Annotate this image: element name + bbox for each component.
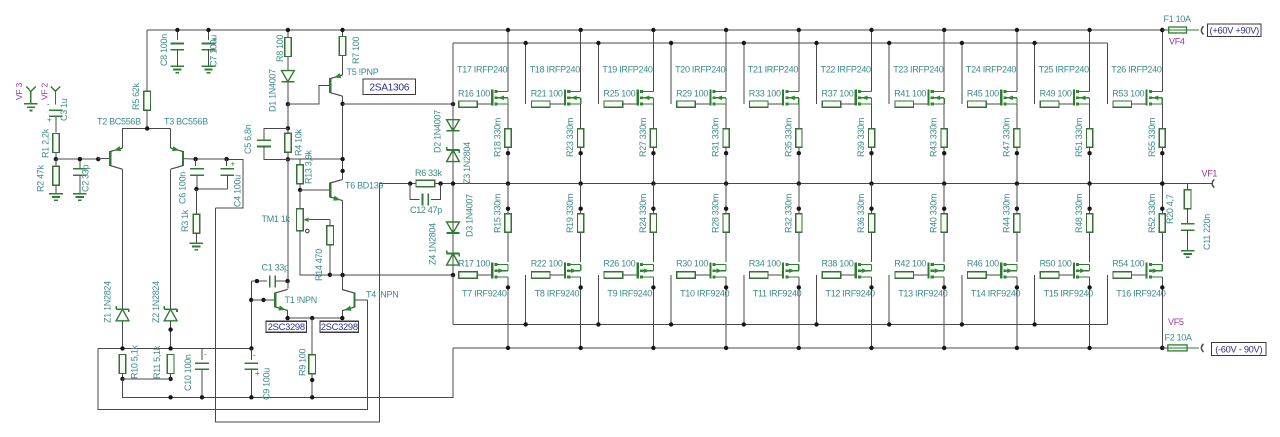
resistor R9 100 xyxy=(311,318,313,355)
zener Z1 1N2824 xyxy=(116,308,129,310)
resistor R16 100 (gate) xyxy=(459,101,478,107)
transistor T7 IRF9240 xyxy=(491,262,493,278)
wire T25 drain to +V rail xyxy=(1089,30,1091,92)
fuse F2 10A xyxy=(1160,346,1164,350)
svg-text:R24 330m: R24 330m xyxy=(638,194,648,233)
svg-text:T10 IRF9240: T10 IRF9240 xyxy=(680,289,730,299)
transistor T5 PNP 2SA1306 xyxy=(329,78,331,93)
node D1 cathode / T5 base xyxy=(286,102,290,106)
svg-text:Z3 1N2804: Z3 1N2804 xyxy=(462,142,472,184)
svg-text:R47 330m: R47 330m xyxy=(1001,118,1011,157)
wire C1 left to T1 base xyxy=(250,281,252,348)
wire top gate bus xyxy=(453,42,1107,44)
transistor T4 NPN 2SC3298 xyxy=(353,293,355,308)
capacitor C8 100n xyxy=(176,30,178,40)
svg-text:F2 10A: F2 10A xyxy=(1165,333,1193,343)
wire cell 6 top gate drop xyxy=(816,43,818,104)
svg-text:T4 !NPN: T4 !NPN xyxy=(366,290,398,300)
wire cell 9 top gate drop xyxy=(1034,43,1036,104)
wire top +V rail xyxy=(147,29,1162,31)
wire T14 drain to -V rail xyxy=(1016,277,1018,348)
svg-text:R2 47k: R2 47k xyxy=(36,164,46,192)
resistor R25 100 (gate) xyxy=(604,101,623,107)
svg-text:+: + xyxy=(47,116,52,125)
wire top drive line to first cell xyxy=(343,103,453,105)
transistor T23 IRFP240 xyxy=(927,90,929,106)
resistor R33 100 (gate) xyxy=(750,101,769,107)
wire R10-R11 bottoms xyxy=(123,378,171,380)
wire emitters + R9 xyxy=(287,311,289,319)
resistor R47 330m (source) xyxy=(1016,104,1018,129)
svg-text:R8 100: R8 100 xyxy=(275,34,285,62)
svg-text:D3 1N4007: D3 1N4007 xyxy=(465,194,475,237)
svg-text:T21 IRFP240: T21 IRFP240 xyxy=(748,65,799,75)
svg-text:T15 IRF9240: T15 IRF9240 xyxy=(1044,289,1094,299)
resistor R28 330m (source) xyxy=(725,184,727,263)
node VF1 output xyxy=(1160,181,1164,185)
wire -V rail left feed xyxy=(171,348,453,397)
connector -60V -90V xyxy=(1201,344,1203,352)
resistor R19 330m (source) xyxy=(580,184,582,263)
svg-text:T12 IRF9240: T12 IRF9240 xyxy=(826,289,876,299)
svg-text:R36 330m: R36 330m xyxy=(856,194,866,233)
wire T16 drain to -V rail xyxy=(1161,277,1163,348)
node cell 7 output rail xyxy=(942,181,946,185)
svg-text:R33 100: R33 100 xyxy=(749,89,781,99)
svg-text:R15 330m: R15 330m xyxy=(493,194,503,233)
capacitor C12 47p xyxy=(410,184,420,200)
svg-text:R43 330m: R43 330m xyxy=(929,118,939,157)
svg-text:C9 100u: C9 100u xyxy=(262,368,272,400)
svg-text:R46 100: R46 100 xyxy=(967,259,999,269)
svg-text:R25 100: R25 100 xyxy=(603,89,635,99)
transistor T6 BD139 xyxy=(300,189,330,191)
wire cell 2 top gate drop xyxy=(525,43,527,104)
resistor R29 100 (gate) xyxy=(677,101,696,107)
svg-text:T18 IRFP240: T18 IRFP240 xyxy=(530,65,581,75)
svg-text:T14 IRF9240: T14 IRF9240 xyxy=(971,289,1021,299)
resistor R22 100 (gate) xyxy=(525,275,527,324)
wire T26 drain to +V rail xyxy=(1161,30,1163,92)
transistor T17 IRFP240 xyxy=(491,90,493,106)
svg-text:T16 IRF9240: T16 IRF9240 xyxy=(1116,289,1166,299)
transistor T24 IRFP240 xyxy=(1000,90,1002,106)
svg-text:R38 100: R38 100 xyxy=(822,259,854,269)
connector VF2 xyxy=(51,87,56,105)
resistor R54 100 (gate) xyxy=(1106,275,1108,324)
svg-text:R31 330m: R31 330m xyxy=(711,118,721,157)
ground R3 xyxy=(190,242,204,244)
svg-text:R54 100: R54 100 xyxy=(1112,259,1144,269)
transistor T9 IRF9240 xyxy=(637,262,639,278)
capacitor C11 220n xyxy=(1181,223,1195,225)
resistor R4 10k + node xyxy=(287,104,289,128)
resistor R36 330m (source) xyxy=(871,184,873,263)
svg-text:T19 IRFP240: T19 IRFP240 xyxy=(602,65,653,75)
svg-text:R48 330m: R48 330m xyxy=(1074,194,1084,233)
transistor T11 IRF9240 xyxy=(782,262,784,278)
svg-text:R40 330m: R40 330m xyxy=(929,194,939,233)
svg-text:C8 100n: C8 100n xyxy=(159,34,169,66)
node emitters R5 xyxy=(145,126,149,130)
node bottom drive xyxy=(451,273,455,277)
svg-text:C12 47p: C12 47p xyxy=(410,205,442,215)
capacitor C1 33p xyxy=(251,280,267,282)
wire T10 drain to -V rail xyxy=(725,277,727,348)
svg-text:R30 100: R30 100 xyxy=(676,259,708,269)
capacitor C10 100n xyxy=(201,348,203,360)
wire output feedback drop xyxy=(215,184,379,422)
resistor R14 470 xyxy=(329,220,331,226)
svg-text:R41 100: R41 100 xyxy=(894,89,926,99)
svg-text:C5 6,8n: C5 6,8n xyxy=(243,124,253,154)
svg-text:T3 BC556B: T3 BC556B xyxy=(164,117,208,127)
resistor R44 330m (source) xyxy=(1016,184,1018,263)
svg-text:R26 100: R26 100 xyxy=(603,259,635,269)
svg-text:T22 IRFP240: T22 IRFP240 xyxy=(821,65,872,75)
svg-text:TM1 1k: TM1 1k xyxy=(262,214,291,224)
wire T21 drain to +V rail xyxy=(798,30,800,92)
node cell 5 output rail xyxy=(797,181,801,185)
node bias bottom line xyxy=(328,273,332,277)
wire bottom gate bus xyxy=(453,323,1107,325)
svg-text:R13 3,9k: R13 3,9k xyxy=(304,150,314,184)
node cell 9 output rail xyxy=(1087,181,1091,185)
wire T8 drain to -V rail xyxy=(580,277,582,348)
wire T3 collector to Z2 xyxy=(170,169,172,309)
resistor R45 100 (gate) xyxy=(968,101,987,107)
wire T22 drain to +V rail xyxy=(871,30,873,92)
svg-text:R4 10k: R4 10k xyxy=(294,128,304,156)
svg-text:T26 IRFP240: T26 IRFP240 xyxy=(1111,65,1162,75)
resistor R52 330m (source) xyxy=(1161,184,1163,263)
svg-text:T20 IRFP240: T20 IRFP240 xyxy=(675,65,726,75)
resistor R35 330m (source) xyxy=(798,104,800,129)
wire cell 7 top gate drop xyxy=(888,43,890,104)
svg-text:VF1: VF1 xyxy=(1202,169,1218,179)
svg-text:R37 100: R37 100 xyxy=(822,89,854,99)
resistor R18 330m (source) xyxy=(507,104,509,129)
svg-text:D1 1N4007: D1 1N4007 xyxy=(268,69,278,112)
zener Z2 1N2824 xyxy=(164,308,177,310)
wire diode chain vertical xyxy=(452,104,454,184)
node cell 8 output rail xyxy=(1015,181,1019,185)
transistor T22 IRFP240 xyxy=(855,90,857,106)
svg-text:2SC3298: 2SC3298 xyxy=(321,321,358,332)
svg-text:R34 100: R34 100 xyxy=(749,259,781,269)
svg-text:+: + xyxy=(231,160,236,169)
wire cell 3 top gate drop xyxy=(597,43,599,104)
svg-text:C7 100u: C7 100u xyxy=(209,35,219,67)
wire T19 drain to +V rail xyxy=(652,30,654,92)
transistor T12 IRF9240 xyxy=(855,262,857,278)
resistor R24 330m (source) xyxy=(652,184,654,263)
svg-text:R51 330m: R51 330m xyxy=(1074,118,1084,157)
zener Z3 1N2804 xyxy=(447,149,460,151)
wire C6-C4 bottom node xyxy=(196,188,228,190)
svg-text:Z1 1N2824: Z1 1N2824 xyxy=(103,281,113,323)
wire T5 collector node xyxy=(342,96,344,179)
svg-text:R5 62k: R5 62k xyxy=(131,82,141,110)
resistor R5 62k xyxy=(146,30,148,91)
wire cell 1 top gate drop xyxy=(452,43,454,104)
transistor T16 IRF9240 xyxy=(1145,262,1147,278)
wire output rail VF1 net xyxy=(379,183,1211,185)
diode D3 1N4007 xyxy=(447,222,460,233)
svg-text:R9 100: R9 100 xyxy=(298,348,308,376)
svg-text:(-60V - 90V): (-60V - 90V) xyxy=(1215,344,1262,354)
svg-text:D2 1N4007: D2 1N4007 xyxy=(433,110,443,153)
wire T17 drain to +V rail xyxy=(507,30,509,92)
resistor R3 1k xyxy=(195,189,197,214)
wire TM1 bottom xyxy=(300,231,330,275)
transistor T18 IRFP240 xyxy=(564,90,566,106)
resistor R7 100 xyxy=(342,30,344,37)
resistor R26 100 (gate) xyxy=(597,275,599,324)
wire R4 bottom to T6 collector line xyxy=(288,158,343,160)
resistor R55 330m (source) xyxy=(1161,104,1163,129)
resistor R50 100 (gate) xyxy=(1034,275,1036,324)
node cell 10 output rail xyxy=(1160,181,1164,185)
svg-text:R50 100: R50 100 xyxy=(1040,259,1072,269)
resistor R27 330m (source) xyxy=(652,104,654,129)
wire T1 collector long vertical xyxy=(287,159,289,281)
node input junction xyxy=(54,157,58,161)
capacitor C3 1u xyxy=(49,109,63,111)
svg-text:R18 330m: R18 330m xyxy=(493,118,503,157)
capacitor C4 100u xyxy=(226,159,228,166)
resistor R17 100 (gate) xyxy=(452,275,454,324)
svg-text:R22 100: R22 100 xyxy=(531,259,563,269)
wire T12 drain to -V rail xyxy=(871,277,873,348)
capacitor C2 33p xyxy=(79,159,81,169)
svg-text:C2 33p: C2 33p xyxy=(81,164,91,192)
wire T7 drain to -V rail xyxy=(507,277,509,348)
wire T3 base xyxy=(183,158,196,161)
resistor R8 100 xyxy=(287,30,289,38)
node cell 3 output rail xyxy=(651,181,655,185)
transistor T2 BC556B xyxy=(98,158,110,160)
resistor R39 330m (source) xyxy=(871,104,873,129)
wire T11 drain to -V rail xyxy=(798,277,800,348)
transistor T21 IRFP240 xyxy=(782,90,784,106)
svg-text:C3 1u: C3 1u xyxy=(59,98,69,121)
svg-text:T13 IRF9240: T13 IRF9240 xyxy=(898,289,948,299)
wire bias rail to T4 base loop xyxy=(98,300,367,409)
resistor R48 330m (source) xyxy=(1089,184,1091,263)
svg-text:R52 330m: R52 330m xyxy=(1147,194,1157,233)
svg-text:VF4: VF4 xyxy=(1169,37,1185,47)
svg-text:C1 33p: C1 33p xyxy=(262,263,290,273)
svg-text:R29 100: R29 100 xyxy=(676,89,708,99)
svg-text:R11 5,1k: R11 5,1k xyxy=(152,345,162,379)
svg-text:T17 IRFP240: T17 IRFP240 xyxy=(457,65,508,75)
wire T15 drain to -V rail xyxy=(1089,277,1091,348)
svg-text:T9 IRF9240: T9 IRF9240 xyxy=(607,289,652,299)
node cell 6 output rail xyxy=(869,181,873,185)
resistor R49 100 (gate) xyxy=(1040,101,1059,107)
svg-text:R20 4,7: R20 4,7 xyxy=(1165,194,1175,224)
wire bias rail xyxy=(98,347,252,349)
svg-text:C6 100n: C6 100n xyxy=(177,172,187,204)
node top drive xyxy=(451,102,455,106)
resistor R38 100 (gate) xyxy=(816,275,818,324)
trimmer TM1 1k xyxy=(299,190,301,209)
svg-text:R21 100: R21 100 xyxy=(531,89,563,99)
wire cell 4 top gate drop xyxy=(670,43,672,104)
node rail-chain junction xyxy=(451,181,455,185)
node cell 2 output rail xyxy=(579,181,583,185)
svg-text:R23 330m: R23 330m xyxy=(565,118,575,157)
svg-text:Z2 1N2824: Z2 1N2824 xyxy=(151,281,161,323)
svg-text:R42 100: R42 100 xyxy=(894,259,926,269)
svg-text:R49 100: R49 100 xyxy=(1040,89,1072,99)
svg-text:R1 2,2k: R1 2,2k xyxy=(41,128,51,158)
resistor R20 4,7 xyxy=(1187,184,1189,190)
resistor R32 330m (source) xyxy=(798,184,800,263)
resistor R23 330m (source) xyxy=(580,104,582,129)
svg-text:T7 IRF9240: T7 IRF9240 xyxy=(462,289,507,299)
resistor R21 100 (gate) xyxy=(531,101,550,107)
svg-text:R39 330m: R39 330m xyxy=(856,118,866,157)
resistor R34 100 (gate) xyxy=(743,275,745,324)
zener Z4 1N2804 xyxy=(447,253,460,255)
wire T2 collector to Z1 xyxy=(122,169,124,309)
svg-text:F1 10A: F1 10A xyxy=(1164,14,1192,24)
svg-text:VF 3: VF 3 xyxy=(14,83,24,100)
svg-text:T1 !NPN: T1 !NPN xyxy=(285,295,317,305)
wire T13 drain to -V rail xyxy=(943,277,945,348)
svg-text:R3 1k: R3 1k xyxy=(180,209,190,232)
svg-text:R53 100: R53 100 xyxy=(1112,89,1144,99)
svg-text:T23 IRFP240: T23 IRFP240 xyxy=(893,65,944,75)
wire T24 drain to +V rail xyxy=(1016,30,1018,92)
node cell 1 output rail xyxy=(506,181,510,185)
svg-text:R55 330m: R55 330m xyxy=(1147,118,1157,157)
svg-text:R27 330m: R27 330m xyxy=(638,118,648,157)
ground C2 xyxy=(73,193,87,195)
transistor T14 IRF9240 xyxy=(1000,262,1002,278)
diode D2 1N4007 xyxy=(452,104,454,120)
capacitor C5 6,8n parallel R4 xyxy=(264,128,288,140)
svg-text:R6 33k: R6 33k xyxy=(415,168,443,178)
svg-text:R7 100: R7 100 xyxy=(351,36,361,64)
svg-text:C4 100u: C4 100u xyxy=(233,175,243,207)
svg-text:C10 100n: C10 100n xyxy=(183,354,193,391)
transistor T19 IRFP240 xyxy=(637,90,639,106)
fuse F1 10A xyxy=(1160,28,1164,32)
resistor R13 3,9k xyxy=(299,159,301,165)
svg-text:T24 IRFP240: T24 IRFP240 xyxy=(966,65,1017,75)
svg-text:R19 330m: R19 330m xyxy=(565,194,575,233)
svg-text:R28 330m: R28 330m xyxy=(711,194,721,233)
resistor R10 5,1k xyxy=(119,355,126,374)
ground R2 xyxy=(49,193,63,195)
wire T3 base feedback loop xyxy=(215,160,243,208)
resistor R6 33k xyxy=(408,181,412,185)
diode D1 1N4007 xyxy=(282,71,295,82)
ground C7 xyxy=(202,65,216,67)
transistor T8 IRF9240 xyxy=(564,262,566,278)
svg-text:(+60V +90V): (+60V +90V) xyxy=(1210,26,1260,36)
svg-text:T5 !PNP: T5 !PNP xyxy=(347,67,379,77)
resistor R53 100 (gate) xyxy=(1113,101,1132,107)
resistor R51 330m (source) xyxy=(1089,104,1091,129)
svg-text:R45 100: R45 100 xyxy=(967,89,999,99)
ground C8 xyxy=(171,65,185,67)
resistor R1 2,2k xyxy=(53,134,60,153)
resistor R15 330m (source) xyxy=(507,184,509,263)
capacitor C9 100u xyxy=(250,348,252,360)
resistor R37 100 (gate) xyxy=(822,101,841,107)
transistor T26 IRFP240 xyxy=(1145,90,1147,106)
svg-text:R17 100: R17 100 xyxy=(458,259,490,269)
wire cell 5 top gate drop xyxy=(743,43,745,104)
svg-text:VF5: VF5 xyxy=(1168,317,1184,327)
wire -V rail xyxy=(453,347,1162,349)
svg-text:T11 IRF9240: T11 IRF9240 xyxy=(753,289,802,299)
svg-text:T6 BD139: T6 BD139 xyxy=(345,181,383,191)
wire T6 emitter down xyxy=(342,201,344,276)
svg-text:T25 IRFP240: T25 IRFP240 xyxy=(1039,65,1090,75)
svg-text:2SA1306: 2SA1306 xyxy=(369,82,409,93)
resistor R30 100 (gate) xyxy=(670,275,672,324)
svg-text:T2 BC556B: T2 BC556B xyxy=(97,117,141,127)
transistor T25 IRFP240 xyxy=(1073,90,1075,106)
wire T20 drain to +V rail xyxy=(725,30,727,92)
svg-text:C11 220n: C11 220n xyxy=(1202,214,1212,250)
svg-text:R35 330m: R35 330m xyxy=(783,118,793,157)
node cell 4 output rail xyxy=(724,181,728,185)
wire T1 collector xyxy=(287,281,289,288)
svg-text:R44 330m: R44 330m xyxy=(1001,194,1011,233)
svg-text:VF 2: VF 2 xyxy=(39,83,49,100)
connector VF3 xyxy=(26,87,31,104)
transistor T20 IRFP240 xyxy=(709,90,711,106)
wire T2 emitter xyxy=(123,129,171,148)
capacitor C6 100n xyxy=(195,159,197,166)
transistor T10 IRF9240 xyxy=(709,262,711,278)
svg-text:+: + xyxy=(255,369,260,378)
resistor R42 100 (gate) xyxy=(888,275,890,324)
svg-text:R14 470: R14 470 xyxy=(314,249,324,281)
transistor T13 IRF9240 xyxy=(927,262,929,278)
ground C11 xyxy=(1181,250,1195,252)
transistor T15 IRF9240 xyxy=(1073,262,1075,278)
transistor T3 BC556B xyxy=(182,151,184,166)
resistor R43 330m (source) xyxy=(943,104,945,129)
svg-text:R32 330m: R32 330m xyxy=(783,194,793,233)
resistor R31 330m (source) xyxy=(725,104,727,129)
wire T18 drain to +V rail xyxy=(580,30,582,92)
connector +60V +90V xyxy=(1201,26,1203,34)
svg-text:R16 100: R16 100 xyxy=(458,89,490,99)
svg-text:T8 IRF9240: T8 IRF9240 xyxy=(535,289,580,299)
svg-text:R10 5,1k: R10 5,1k xyxy=(129,345,139,379)
resistor R46 100 (gate) xyxy=(961,275,963,324)
resistor R2 47k xyxy=(55,159,57,166)
svg-text:Z4 1N2804: Z4 1N2804 xyxy=(428,223,438,265)
wire T4 collector xyxy=(341,275,343,289)
resistor R40 330m (source) xyxy=(943,184,945,263)
wire chain to bottom gate bus xyxy=(452,275,454,324)
resistor R11 5,1k xyxy=(167,355,174,374)
resistor R41 100 (gate) xyxy=(895,101,914,107)
transistor T1 NPN 2SC3298 xyxy=(251,299,275,301)
wire cell 8 top gate drop xyxy=(961,43,963,104)
wire T9 drain to -V rail xyxy=(652,277,654,348)
svg-text:2SC3298: 2SC3298 xyxy=(268,321,305,332)
